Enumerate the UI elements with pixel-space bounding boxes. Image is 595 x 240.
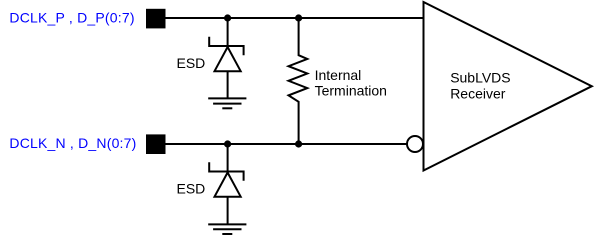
svg-text:DCLK_P , D_P(0:7): DCLK_P , D_P(0:7) bbox=[9, 10, 134, 26]
svg-text:SubLVDS: SubLVDS bbox=[450, 70, 510, 86]
svg-text:Termination: Termination bbox=[315, 82, 387, 98]
svg-text:Internal: Internal bbox=[315, 67, 362, 83]
svg-text:ESD: ESD bbox=[177, 181, 206, 197]
svg-text:ESD: ESD bbox=[177, 55, 206, 71]
svg-text:Receiver: Receiver bbox=[450, 86, 506, 102]
svg-text:DCLK_N , D_N(0:7): DCLK_N , D_N(0:7) bbox=[9, 135, 136, 151]
